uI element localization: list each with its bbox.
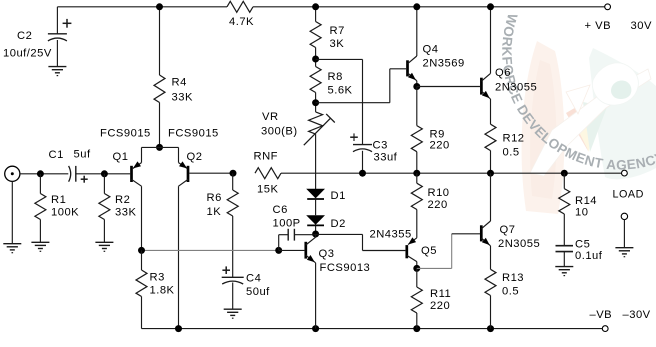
svg-text:Q1: Q1 xyxy=(113,151,129,163)
svg-text:0.5: 0.5 xyxy=(502,286,519,298)
svg-text:220: 220 xyxy=(430,140,450,152)
svg-text:5uf: 5uf xyxy=(74,149,91,161)
svg-text:FCS9015: FCS9015 xyxy=(168,128,219,140)
svg-text:33K: 33K xyxy=(172,92,193,104)
svg-text:Q3: Q3 xyxy=(319,248,335,260)
svg-text:R10: R10 xyxy=(428,187,450,199)
svg-text:RNF: RNF xyxy=(254,151,279,163)
svg-text:C4: C4 xyxy=(246,273,261,285)
svg-text:R14: R14 xyxy=(575,195,597,207)
svg-text:C3: C3 xyxy=(373,140,388,152)
svg-text:C5: C5 xyxy=(575,239,590,251)
svg-text:R13: R13 xyxy=(502,272,524,284)
svg-text:10uf/25V: 10uf/25V xyxy=(3,48,52,60)
svg-text:R3: R3 xyxy=(150,272,165,284)
svg-text:33uf: 33uf xyxy=(374,152,398,164)
svg-text:220: 220 xyxy=(428,199,448,211)
svg-text:0.5: 0.5 xyxy=(503,147,520,159)
svg-text:100P: 100P xyxy=(273,218,301,230)
svg-text:Q6: Q6 xyxy=(495,67,511,79)
svg-text:R2: R2 xyxy=(115,194,130,206)
svg-text:–30V: –30V xyxy=(623,309,651,321)
svg-text:VR: VR xyxy=(262,111,279,123)
svg-text:50uf: 50uf xyxy=(246,286,270,298)
svg-text:Q7: Q7 xyxy=(500,224,516,236)
svg-text:FCS9015: FCS9015 xyxy=(100,128,151,140)
svg-text:D1: D1 xyxy=(331,190,346,202)
svg-text:2N4355: 2N4355 xyxy=(370,229,412,241)
svg-text:1.8K: 1.8K xyxy=(150,285,175,297)
svg-text:LOAD: LOAD xyxy=(613,189,644,201)
svg-text:Q2: Q2 xyxy=(187,151,203,163)
svg-text:100K: 100K xyxy=(51,207,79,219)
svg-text:FCS9013: FCS9013 xyxy=(320,262,371,274)
svg-text:30V: 30V xyxy=(631,20,652,32)
svg-text:C6: C6 xyxy=(273,204,288,216)
svg-text:R6: R6 xyxy=(207,192,222,204)
svg-text:3K: 3K xyxy=(330,38,345,50)
svg-text:R8: R8 xyxy=(328,71,343,83)
svg-text:R11: R11 xyxy=(430,288,451,300)
svg-text:1K: 1K xyxy=(207,206,222,218)
svg-text:2N3569: 2N3569 xyxy=(423,58,465,70)
svg-text:4.7K: 4.7K xyxy=(229,16,254,28)
svg-text:R1: R1 xyxy=(51,194,66,206)
svg-text:D2: D2 xyxy=(331,218,346,230)
svg-text:2N3055: 2N3055 xyxy=(495,82,537,94)
svg-text:2N3055: 2N3055 xyxy=(498,238,540,250)
svg-text:10: 10 xyxy=(575,207,588,219)
svg-text:0.1uf: 0.1uf xyxy=(575,250,603,262)
svg-text:15K: 15K xyxy=(257,184,278,196)
svg-text:C1: C1 xyxy=(49,149,64,161)
svg-text:R12: R12 xyxy=(503,133,525,145)
svg-text:+ VB: + VB xyxy=(585,20,612,32)
svg-text:Q5: Q5 xyxy=(421,245,437,257)
svg-text:300(B): 300(B) xyxy=(261,126,298,138)
svg-text:C2: C2 xyxy=(17,30,32,42)
svg-text:5.6K: 5.6K xyxy=(328,85,353,97)
svg-text:–VB: –VB xyxy=(590,309,613,321)
svg-text:R4: R4 xyxy=(172,77,187,89)
svg-text:220: 220 xyxy=(430,300,450,312)
svg-text:33K: 33K xyxy=(115,207,136,219)
svg-text:R7: R7 xyxy=(330,25,345,37)
svg-text:Q4: Q4 xyxy=(423,44,439,56)
